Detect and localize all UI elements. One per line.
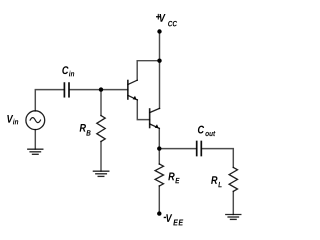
capacitor Cout [197, 142, 202, 156]
wire Vin to ground [34, 130, 36, 149]
resistor RB [97, 116, 105, 142]
wire node to RB [100, 90, 102, 116]
wire RE to -Vee [158, 186, 160, 214]
wire Vcc rail down to Q2 collector [159, 32, 161, 109]
resistor RE [155, 164, 163, 186]
wire RB to ground [100, 142, 102, 172]
wire Q1 collector to rail [137, 61, 159, 80]
label resistor RB [80, 124, 91, 136]
node Cin / RB / base junction [99, 87, 103, 91]
wire RL to ground [232, 191, 234, 214]
ground under Vin [28, 149, 43, 154]
source Vin [26, 111, 45, 130]
label Vcc terminal +Vcc [156, 14, 177, 26]
node emitter output junction [157, 146, 161, 150]
wire Q1 base [70, 89, 128, 91]
transistor Q1 [128, 80, 137, 100]
label resistor RE [168, 173, 179, 184]
wire node to RE [158, 149, 160, 164]
label capacitor Cout [198, 126, 215, 137]
transistor Q2 [150, 108, 160, 128]
wire Vin to Cin [35, 90, 63, 111]
wire Q2 emitter down [158, 128, 160, 148]
wire Q1 emitter to Q2 base [137, 100, 149, 120]
node +Vcc terminal [157, 29, 161, 33]
capacitor Cin [64, 83, 69, 97]
ground under RB [93, 171, 108, 176]
label source Vin [7, 115, 18, 124]
node collector junction [157, 59, 161, 63]
wire node to Cout [159, 148, 196, 150]
node -Vee terminal [157, 211, 161, 215]
resistor RL [229, 167, 237, 191]
wire Cout to RL [201, 149, 233, 168]
label resistor RL [211, 176, 222, 187]
ground under RL [226, 215, 241, 220]
label Vee terminal -Vee [164, 214, 184, 225]
label capacitor Cin [62, 66, 74, 76]
